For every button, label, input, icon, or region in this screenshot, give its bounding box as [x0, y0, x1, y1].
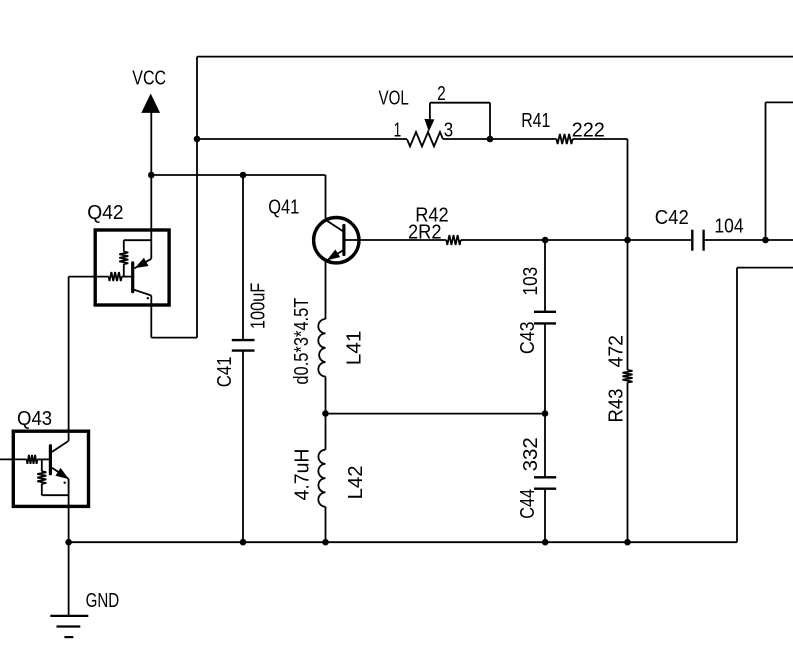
svg-text:d0.5*3*4.5T: d0.5*3*4.5T: [291, 298, 313, 385]
svg-text:R43: R43: [606, 389, 628, 423]
svg-text:GND: GND: [86, 590, 120, 612]
svg-text:Q43: Q43: [17, 408, 52, 430]
svg-text:2R2: 2R2: [408, 221, 442, 243]
svg-text:332: 332: [520, 437, 542, 471]
svg-text:C42: C42: [655, 207, 689, 229]
svg-text:4.7uH: 4.7uH: [292, 449, 314, 501]
svg-text:VCC: VCC: [132, 68, 166, 90]
svg-text:1: 1: [394, 120, 402, 142]
svg-text:R41: R41: [521, 110, 550, 132]
svg-text:C44: C44: [517, 489, 539, 519]
svg-text:Q42: Q42: [87, 202, 123, 224]
svg-text:3: 3: [444, 120, 453, 142]
svg-text:2: 2: [437, 83, 446, 105]
svg-text:103: 103: [520, 267, 542, 296]
svg-text:Q41: Q41: [268, 197, 299, 219]
svg-text:C41: C41: [214, 356, 236, 387]
svg-text:L42: L42: [345, 466, 367, 500]
svg-text:C43: C43: [517, 321, 539, 354]
svg-text:104: 104: [714, 215, 743, 237]
svg-text:222: 222: [572, 119, 605, 141]
svg-text:472: 472: [606, 335, 628, 368]
svg-text:100uF: 100uF: [248, 283, 270, 329]
svg-text:VOL: VOL: [379, 88, 409, 110]
svg-text:L41: L41: [343, 331, 365, 366]
